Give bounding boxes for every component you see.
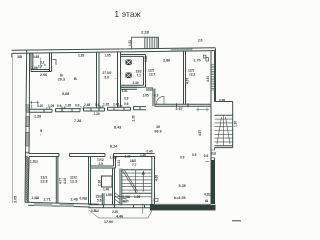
svg-text:0.40: 0.40: [147, 150, 153, 154]
svg-text:0.8Ш: 0.8Ш: [91, 209, 99, 213]
svg-text:1.2: 1.2: [80, 106, 85, 110]
stub wall room B bottom: [102, 193, 104, 204]
wall between rooms 11/1 11/2: [56, 157, 58, 203]
room TU walls: [91, 157, 116, 169]
svg-text:0.9: 0.9: [61, 106, 66, 110]
stair right treads: [215, 119, 233, 142]
svg-text:1.7: 1.7: [38, 65, 43, 69]
outer wall bottom left part: [25, 202, 99, 207]
outer wall right: [211, 48, 216, 204]
left wall cavity tint: [25, 155, 28, 202]
bottom small window marks: [122, 199, 126, 202]
svg-text:1.35: 1.35: [65, 104, 71, 108]
svg-text:2.06: 2.06: [40, 73, 47, 77]
stair right divider: [223, 115, 225, 146]
wall stub under vent corridor: [121, 87, 154, 90]
svg-text:1.51: 1.51: [128, 40, 132, 46]
small room top-left: [31, 53, 52, 72]
wall top of room 10: [153, 89, 211, 108]
window break left 3: [25, 146, 30, 152]
top wall window shading: [170, 48, 192, 50]
svg-text:17.00: 17.00: [104, 220, 113, 224]
window break left 1: [25, 112, 30, 116]
wall rooms 12/2-12/3: [184, 51, 186, 104]
svg-text:22.8: 22.8: [40, 180, 47, 184]
shaft hatch bottom: [115, 193, 121, 204]
svg-text:4.77: 4.77: [59, 178, 63, 184]
svg-text:5.6: 5.6: [97, 199, 102, 203]
svg-text:→: →: [114, 76, 117, 80]
svg-text:1.40: 1.40: [140, 153, 146, 157]
svg-text:8.43: 8.43: [114, 126, 121, 130]
svg-text:12.3: 12.3: [70, 180, 77, 184]
room B walls: [113, 168, 115, 205]
svg-text:3.58: 3.58: [144, 56, 148, 62]
wall right of room 11/2 (block left wall): [89, 157, 91, 205]
porch hatch: [144, 37, 158, 48]
room B inner shaft: [102, 176, 113, 187]
svg-text:1.68: 1.68: [106, 193, 112, 197]
left wall hatch lower: [26, 156, 29, 202]
interior wall corridor/vent room: [118, 52, 121, 108]
svg-text:5.25: 5.25: [179, 184, 186, 188]
window dim line left: [30, 101, 40, 109]
svg-text:2.28: 2.28: [78, 54, 84, 58]
svg-text:0.9Ш: 0.9Ш: [80, 197, 88, 201]
stair right arrows: [217, 117, 230, 144]
outer wall left: [25, 50, 30, 203]
svg-text:1.3Ш: 1.3Ш: [32, 196, 40, 200]
svg-text:2.67: 2.67: [176, 107, 183, 111]
left outside dimension line: [12, 53, 14, 203]
svg-text:7.28: 7.28: [74, 119, 81, 123]
corridor bottom wall: [29, 107, 147, 113]
dim tick crossing bottom wall: [142, 204, 144, 215]
svg-text:7.7: 7.7: [132, 163, 137, 167]
svg-text:1.2Ш: 1.2Ш: [110, 156, 118, 160]
svg-text:1В: 1В: [17, 54, 22, 59]
svg-text:1.65: 1.65: [105, 54, 111, 58]
svg-text:20.3: 20.3: [58, 77, 65, 81]
svg-text:2.0: 2.0: [198, 39, 203, 43]
svg-text:4.91: 4.91: [206, 76, 210, 82]
svg-text:0.9: 0.9: [75, 103, 80, 107]
svg-text:2.36: 2.36: [98, 180, 102, 186]
svg-text:1.25: 1.25: [134, 195, 140, 199]
svg-text:4.07: 4.07: [186, 78, 190, 84]
svg-text:13.2: 13.2: [189, 73, 195, 77]
svg-text:h=3.25: h=3.25: [174, 196, 186, 200]
window bottom B2 shaded: [60, 204, 75, 207]
vent shaft square 1: [126, 60, 132, 66]
svg-text:1.20: 1.20: [94, 112, 100, 116]
stair right enclosure: [215, 102, 233, 148]
left wall gray section: [26, 104, 30, 154]
svg-text:1.05: 1.05: [143, 94, 149, 98]
door mark right of small room: [53, 60, 57, 66]
bottom dimension leaders: [89, 210, 153, 218]
svg-text:2.36: 2.36: [125, 155, 131, 159]
svg-text:1.7: 1.7: [46, 107, 51, 111]
svg-text:2.86: 2.86: [163, 59, 170, 63]
porch bump top: [132, 37, 159, 49]
svg-text:3Ш: 3Ш: [211, 152, 216, 156]
svg-text:7.1: 7.1: [137, 74, 142, 78]
bottom right stray line: [232, 220, 241, 222]
vent shaft square 2: [126, 73, 132, 79]
svg-text:4.46: 4.46: [116, 214, 123, 218]
staircase arrow: [142, 174, 144, 192]
svg-text:4.97: 4.97: [198, 130, 202, 136]
svg-text:x: x: [44, 63, 46, 67]
dimension line right with ticks: [196, 108, 209, 112]
svg-text:0.9: 0.9: [124, 102, 129, 106]
svg-text:1.2: 1.2: [118, 105, 123, 109]
svg-text:1 этаж: 1 этаж: [114, 9, 141, 19]
door swing room 12/2: [156, 96, 164, 104]
svg-text:4.2Ш: 4.2Ш: [204, 193, 212, 197]
window break left 2: [25, 127, 30, 133]
svg-text:0.85: 0.85: [33, 55, 39, 59]
outer wall bottom right dark: [150, 205, 216, 211]
staircase treads: [122, 173, 152, 190]
top wall left end stub: [11, 53, 13, 57]
svg-text:1.40: 1.40: [103, 188, 109, 192]
svg-text:6.6: 6.6: [105, 76, 110, 80]
svg-text:2.28: 2.28: [141, 30, 150, 35]
svg-text:Ш: Ш: [205, 199, 208, 203]
svg-text:1.2Ш: 1.2Ш: [30, 160, 38, 164]
svg-text:0.9: 0.9: [124, 97, 129, 101]
svg-text:3.10: 3.10: [37, 104, 43, 108]
staircase main box: [122, 170, 152, 194]
staircase diagonals: [123, 170, 138, 193]
svg-text:2.5: 2.5: [99, 162, 104, 166]
svg-text:8.24: 8.24: [110, 145, 118, 149]
svg-text:4.19: 4.19: [63, 178, 67, 184]
svg-text:2.36: 2.36: [132, 115, 136, 121]
svg-text:4.60: 4.60: [155, 175, 159, 181]
svg-text:0.9: 0.9: [154, 94, 159, 98]
window bottom B1 shaded: [34, 203, 52, 206]
svg-text:13.7: 13.7: [149, 73, 155, 77]
svg-text:0.9: 0.9: [192, 153, 197, 157]
svg-text:2.48: 2.48: [84, 103, 90, 107]
interior wall room5/corridor: [97, 52, 100, 108]
svg-text:1.35: 1.35: [103, 103, 109, 107]
right wall dark fill bottom: [211, 160, 215, 204]
svg-text:2.31: 2.31: [122, 89, 128, 93]
shaft wall left of stairs: [120, 169, 122, 205]
svg-text:2.70: 2.70: [194, 59, 201, 63]
outer wall top: [12, 48, 216, 54]
right wall hatch band: [211, 65, 214, 91]
svg-text:0.9: 0.9: [204, 154, 209, 158]
vent room: [121, 55, 146, 88]
right wall door gap: [212, 150, 216, 159]
svg-text:2.48: 2.48: [71, 198, 78, 202]
svg-text:1.28: 1.28: [34, 115, 41, 119]
svg-text:1.86: 1.86: [32, 66, 38, 70]
small room inner dim line: [40, 58, 42, 69]
svg-text:1.20: 1.20: [234, 121, 238, 127]
left wall lines redraw: [26, 104, 30, 154]
svg-text:5.68: 5.68: [62, 92, 69, 96]
svg-text:2.71: 2.71: [44, 198, 51, 202]
svg-text:1.01: 1.01: [117, 160, 121, 166]
svg-text:0.9: 0.9: [99, 105, 104, 109]
block right wall: [152, 157, 155, 205]
svg-text:96.9: 96.9: [154, 129, 161, 133]
svg-text:3.05: 3.05: [14, 196, 18, 203]
top wall of rooms 11 and block: [29, 154, 155, 157]
staircase divider: [135, 170, 137, 194]
stair landing line below: [115, 196, 152, 198]
svg-text:Б: Б: [74, 76, 77, 81]
svg-text:0.9: 0.9: [180, 156, 185, 160]
outer wall bottom middle (block): [89, 205, 155, 208]
svg-text:27.0/2: 27.0/2: [103, 71, 112, 75]
svg-text:2.30: 2.30: [133, 81, 139, 85]
